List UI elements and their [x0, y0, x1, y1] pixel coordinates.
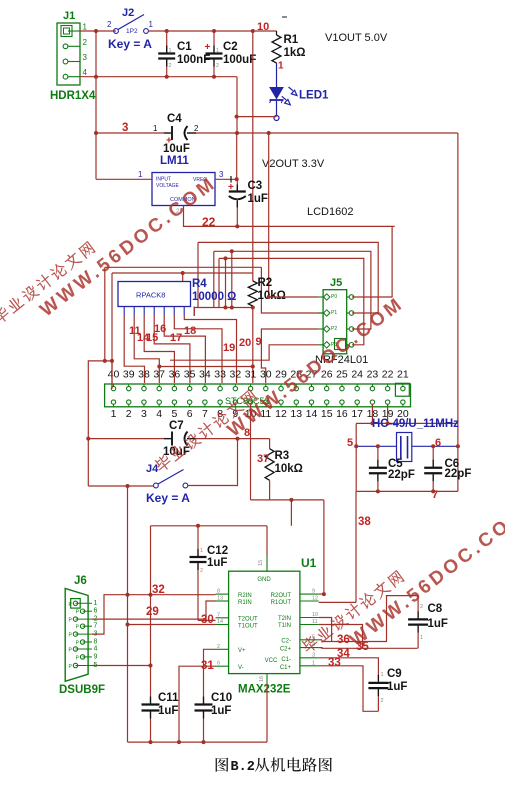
wire V+ to C10 [204, 649, 216, 704]
svg-text:8: 8 [217, 589, 220, 595]
svg-text:1: 1 [138, 170, 143, 179]
wire bundle to J5 pin R2 [198, 242, 378, 313]
svg-text:39: 39 [123, 369, 135, 381]
svg-text:1uF: 1uF [158, 705, 178, 717]
capacitor C11 1uF [142, 703, 160, 705]
connector J1 [57, 23, 80, 85]
svg-text:31: 31 [245, 369, 257, 381]
wire net35 T1IN [319, 625, 363, 649]
svg-text:P1: P1 [331, 310, 337, 316]
svg-text:R1OUT: R1OUT [271, 600, 292, 606]
node 3 rail [96, 132, 170, 134]
svg-text:4: 4 [156, 408, 162, 420]
svg-text:1: 1 [312, 660, 315, 666]
svg-text:HDR1X4: HDR1X4 [50, 90, 96, 102]
svg-text:C2: C2 [223, 41, 238, 53]
svg-text:B.2: B.2 [231, 760, 255, 775]
wire J6 pin5 to vertical [92, 665, 151, 667]
svg-text:1: 1 [111, 408, 117, 420]
svg-text:C1: C1 [177, 41, 192, 53]
wire net8 rail [251, 499, 324, 501]
svg-text:P: P [76, 625, 80, 631]
svg-text:100uF: 100uF [223, 54, 256, 66]
svg-text:MAX232E: MAX232E [238, 684, 291, 696]
U1 pin stubs left [216, 593, 229, 595]
wire C1+ to C9 bottom [319, 666, 379, 712]
svg-text:7: 7 [217, 612, 220, 618]
wire R2OUT riser [323, 500, 325, 594]
svg-text:40: 40 [108, 369, 120, 381]
svg-text:C2-: C2- [281, 638, 291, 644]
svg-text:1: 1 [94, 600, 98, 607]
svg-text:3: 3 [141, 408, 147, 420]
svg-text:21: 21 [397, 369, 409, 381]
svg-text:2: 2 [420, 604, 423, 610]
svg-text:17: 17 [170, 332, 182, 344]
svg-text:INPUT: INPUT [156, 177, 171, 183]
wire MCU pins 18/19 to crystal box [371, 404, 373, 423]
capacitor C3 1uF [236, 179, 238, 190]
svg-text:R1IN: R1IN [238, 600, 252, 606]
svg-text:1: 1 [420, 635, 423, 641]
svg-text:P2: P2 [331, 326, 337, 332]
wire J5 L1 from V2OUT [269, 296, 318, 298]
svg-text:16: 16 [259, 676, 265, 682]
svg-text:11: 11 [312, 619, 318, 625]
svg-text:J5: J5 [330, 277, 342, 289]
svg-text:1: 1 [278, 61, 284, 72]
U1 pin stubs right [300, 593, 319, 595]
caption [216, 758, 229, 772]
wire GND row down-left to C11 [150, 526, 152, 595]
svg-text:25: 25 [336, 369, 348, 381]
svg-text:1uF: 1uF [387, 681, 407, 693]
svg-text:8: 8 [94, 639, 98, 646]
wire J4 right to C7 node [188, 439, 238, 486]
svg-text:14: 14 [306, 408, 318, 420]
wire T1OUT left [128, 624, 216, 626]
svg-text:P: P [69, 618, 73, 624]
svg-text:2: 2 [194, 124, 199, 133]
wire J1 pin4 ground rail [80, 76, 237, 78]
svg-text:J4: J4 [146, 463, 159, 475]
svg-text:10000 Ω: 10000 Ω [192, 291, 236, 303]
svg-text:30: 30 [260, 369, 272, 381]
svg-text:23: 23 [367, 369, 379, 381]
svg-text:22: 22 [382, 369, 394, 381]
svg-text:10kΩ: 10kΩ [275, 463, 303, 475]
watermark 2 [152, 282, 408, 490]
svg-text:5: 5 [347, 437, 353, 449]
svg-text:C12: C12 [207, 545, 228, 557]
wire down to GND row [290, 500, 292, 526]
svg-text:15: 15 [321, 408, 333, 420]
wire RPACK8 pin8 to R2 net [194, 308, 253, 317]
svg-text:10: 10 [312, 612, 318, 618]
svg-text:6: 6 [217, 661, 220, 667]
svg-text:37: 37 [153, 369, 165, 381]
svg-text:V+: V+ [238, 648, 246, 654]
svg-text:1: 1 [200, 548, 203, 554]
wire J5 L4 into bundle [170, 345, 318, 360]
svg-text:38: 38 [358, 516, 371, 528]
wire J1 pin1 to J2 [80, 30, 116, 32]
svg-text:16: 16 [154, 323, 166, 335]
svg-text:1uF: 1uF [207, 557, 227, 569]
svg-text:V1OUT 5.0V: V1OUT 5.0V [325, 32, 388, 44]
capacitor C2 100uF [213, 31, 215, 54]
LED1 [270, 88, 283, 99]
svg-text:1: 1 [149, 20, 154, 29]
svg-text:2: 2 [107, 20, 112, 29]
svg-text:C1+: C1+ [280, 665, 292, 671]
svg-text:2: 2 [200, 568, 203, 574]
svg-text:13: 13 [290, 408, 302, 420]
wire J4 branch down to J6 area [127, 486, 129, 742]
svg-text:10: 10 [257, 21, 269, 33]
wire net36 C8 top path [319, 618, 332, 642]
svg-text:+: + [228, 182, 234, 193]
wire net32 J6 pin3 to R2IN [92, 595, 216, 634]
staircase wires RPACK8 to MCU pins [124, 316, 144, 383]
svg-text:P: P [76, 655, 80, 661]
svg-text:3: 3 [122, 122, 128, 134]
wire bundle to J5 pin R4 [219, 258, 364, 344]
svg-text:1: 1 [381, 672, 384, 678]
svg-text:10kΩ: 10kΩ [258, 290, 286, 302]
svg-text:2: 2 [83, 38, 88, 47]
svg-text:33: 33 [214, 369, 226, 381]
svg-text:C3: C3 [248, 180, 263, 192]
svg-text:9: 9 [94, 653, 98, 660]
svg-text:C8: C8 [428, 603, 443, 615]
svg-text:C4: C4 [167, 113, 182, 125]
wire R2OUT [319, 593, 324, 595]
wire J5 L3 down to MCU pin30 [261, 329, 318, 383]
capacitor C10 1uF [195, 703, 213, 705]
svg-text:C2+: C2+ [280, 647, 292, 653]
svg-text:T2IN: T2IN [278, 616, 291, 622]
wire right-side long vertical to crystal box [457, 133, 459, 491]
svg-text:V-: V- [238, 665, 244, 671]
svg-text:R2IN: R2IN [238, 593, 252, 599]
svg-text:22: 22 [202, 215, 216, 229]
svg-text:6: 6 [187, 408, 193, 420]
svg-text:1: 1 [216, 48, 219, 54]
svg-text:1: 1 [169, 48, 172, 54]
svg-text:C10: C10 [211, 692, 232, 704]
svg-text:RPACK8: RPACK8 [136, 291, 165, 300]
svg-text:1kΩ: 1kΩ [284, 47, 306, 59]
svg-text:J6: J6 [74, 575, 87, 587]
svg-text:100nF: 100nF [177, 54, 210, 66]
svg-text:P: P [76, 641, 80, 647]
wire bundle riser 2 [231, 251, 233, 307]
svg-text:C7: C7 [169, 420, 184, 432]
svg-text:1uF: 1uF [428, 618, 448, 630]
capacitor C9 1uF [368, 682, 388, 684]
svg-text:32: 32 [152, 584, 165, 596]
svg-text:P: P [76, 610, 80, 616]
svg-text:P: P [69, 664, 73, 670]
svg-text:14: 14 [217, 619, 223, 625]
svg-text:36: 36 [169, 369, 181, 381]
svg-text:2: 2 [126, 408, 132, 420]
wire net22 to J5 pin R1 [352, 226, 392, 297]
svg-text:LED1: LED1 [299, 90, 329, 102]
wire long vertical to C11 [150, 595, 152, 705]
U1 pin16 VCC stub [266, 674, 268, 684]
capacitor C6 22pF [432, 446, 434, 468]
wire LED bottom [237, 116, 277, 118]
svg-text:2: 2 [169, 63, 172, 69]
svg-text:P: P [69, 633, 73, 639]
wire gnd rail down right side [236, 77, 238, 133]
crystal enclosure box [356, 422, 458, 424]
capacitor C5 22pF [377, 446, 379, 468]
svg-text:32: 32 [229, 369, 241, 381]
wire J2 to C1/C2/R1 5V rail [149, 30, 277, 32]
svg-text:GND: GND [257, 577, 271, 583]
svg-text:9: 9 [312, 589, 315, 595]
svg-text:LM11: LM11 [160, 155, 189, 167]
watermark 1 [0, 156, 221, 346]
svg-text:33: 33 [328, 657, 341, 669]
svg-text:16: 16 [336, 408, 348, 420]
wire J4 left rail [88, 485, 153, 487]
wire GND row to U1 pin15 [151, 525, 268, 527]
resistor R2 10k [248, 281, 257, 306]
svg-text:34: 34 [199, 369, 211, 381]
crystal Y1 HC-49 [356, 445, 396, 447]
svg-text:C9: C9 [387, 668, 402, 680]
svg-text:3: 3 [219, 170, 224, 179]
capacitor C12 1uF [190, 556, 207, 558]
svg-text:1: 1 [83, 23, 88, 32]
svg-text:2: 2 [217, 644, 220, 650]
svg-text:22pF: 22pF [388, 469, 415, 481]
svg-text:9: 9 [256, 336, 262, 348]
wire net34 C2+ to C8 bottom [319, 647, 418, 650]
svg-text:3: 3 [83, 53, 88, 62]
svg-text:1uF: 1uF [211, 705, 231, 717]
svg-text:1: 1 [153, 124, 158, 133]
svg-text:37: 37 [257, 453, 269, 465]
capacitor C8 1uF [417, 596, 419, 617]
wire bundle to J5 pin R3 [214, 251, 371, 329]
svg-text:R4: R4 [192, 278, 207, 290]
svg-text:VCC: VCC [265, 658, 278, 664]
wire RPACK8 common stub [182, 273, 184, 282]
watermark 3 [299, 485, 505, 676]
svg-text:29: 29 [146, 606, 159, 618]
wire net8 from MCU pin10 down [250, 403, 252, 500]
svg-text:J1: J1 [63, 10, 75, 22]
wire net33 C1- to C9 top [319, 658, 379, 680]
svg-text:22pF: 22pF [445, 468, 472, 480]
wire LM11 pin3 VREG [215, 178, 237, 180]
svg-text:HC-49/U_11MHz: HC-49/U_11MHz [372, 418, 459, 430]
svg-text:4: 4 [83, 68, 88, 77]
svg-text:T2OUT: T2OUT [238, 617, 258, 623]
wire LM11 pin1 [96, 178, 152, 180]
svg-text:18: 18 [184, 325, 196, 337]
svg-text:R2: R2 [258, 277, 273, 289]
svg-text:10uF: 10uF [163, 143, 190, 155]
wire net38 from crystal box to R1OUT [355, 491, 357, 602]
wire net30 C12 to T2OUT [197, 526, 199, 557]
svg-text:1P2: 1P2 [126, 28, 138, 35]
svg-text:+: + [205, 42, 211, 53]
wire bundle left pair to J5 L2 [105, 266, 262, 268]
svg-text:13: 13 [217, 596, 223, 602]
wire J1/J2 node down to LM11 input [95, 31, 97, 179]
svg-text:T1OUT: T1OUT [238, 624, 258, 630]
svg-text:7: 7 [94, 623, 98, 630]
wire LM11 common pin2 / net 22 [184, 206, 395, 227]
svg-text:J2: J2 [122, 7, 134, 19]
svg-text:19: 19 [223, 342, 235, 354]
capacitor C7 10uF [88, 438, 170, 440]
svg-text:2: 2 [216, 63, 219, 69]
svg-text:Key = A: Key = A [146, 491, 190, 505]
svg-text:35: 35 [184, 369, 196, 381]
svg-text:7: 7 [202, 408, 208, 420]
svg-text:C11: C11 [158, 692, 179, 704]
svg-text:VOLTAGE: VOLTAGE [156, 183, 180, 189]
svg-text:U1: U1 [301, 556, 317, 570]
MCU pin circles and numbers [111, 386, 115, 390]
wire bundle riser 1 [225, 258, 227, 307]
wire V2OUT drop to J5 pin [268, 133, 270, 297]
svg-text:P: P [69, 648, 73, 654]
MCU pin21 square marker [395, 383, 409, 396]
wire net9 from pin37 drop to R2 [159, 366, 253, 368]
resistor R3 10k [269, 439, 271, 449]
wire MCU pin40 to J4 branch [88, 361, 112, 486]
svg-text:2: 2 [381, 698, 384, 704]
svg-text:Key = A: Key = A [108, 37, 152, 51]
svg-text:R3: R3 [275, 450, 290, 462]
svg-text:R1: R1 [284, 34, 299, 46]
svg-text:12: 12 [312, 596, 318, 602]
wire V- down to rail [179, 666, 216, 742]
wire net38 R1OUT [319, 601, 356, 603]
resistor R1 1k [276, 31, 278, 35]
svg-text:17: 17 [351, 408, 363, 420]
svg-text:15: 15 [258, 560, 264, 566]
svg-text:T1IN: T1IN [278, 623, 291, 629]
svg-text:LCD1602: LCD1602 [307, 206, 353, 218]
wire net29 J6 pin2 to R1IN [92, 601, 216, 619]
svg-text:R2OUT: R2OUT [271, 593, 292, 599]
MCU STC89C52 body [105, 384, 411, 407]
svg-text:6: 6 [94, 608, 98, 615]
svg-text:P0: P0 [331, 294, 337, 300]
bottom ground rail [128, 741, 268, 743]
capacitor C1 100nF [166, 31, 168, 54]
svg-text:V2OUT 3.3V: V2OUT 3.3V [262, 158, 325, 170]
svg-text:20: 20 [239, 337, 251, 349]
wire 5V drop to R2 [252, 31, 254, 281]
svg-text:4: 4 [94, 646, 98, 653]
svg-text:38: 38 [138, 369, 150, 381]
wire bundle left 2 [112, 272, 253, 274]
svg-text:5: 5 [171, 408, 177, 420]
svg-text:6: 6 [435, 437, 441, 449]
svg-text:DSUB9F: DSUB9F [59, 684, 105, 696]
wire J5 L2 drop [261, 267, 323, 313]
U1 pin15 GND stub [266, 556, 268, 571]
svg-text:1uF: 1uF [248, 193, 268, 205]
svg-text:3: 3 [312, 652, 315, 658]
svg-text:C1-: C1- [281, 657, 291, 663]
wire VREG up to node3 rail [236, 133, 238, 179]
svg-text:24: 24 [351, 369, 363, 381]
